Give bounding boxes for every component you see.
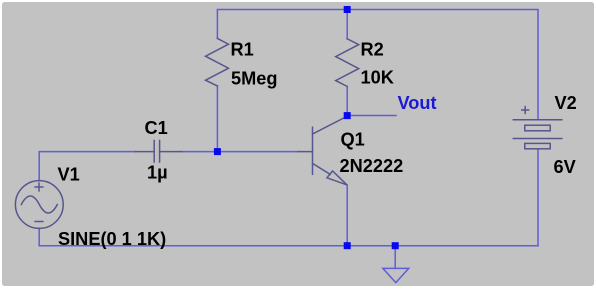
svg-text:V1: V1 [58, 164, 80, 184]
voltage source V1 [15, 181, 63, 229]
wire R2 top lead [346, 10, 348, 39]
ground [383, 246, 409, 283]
svg-text:2N2222: 2N2222 [340, 156, 404, 176]
svg-text:V2: V2 [555, 93, 577, 113]
svg-text:R2: R2 [361, 40, 384, 60]
node junction ground/bottom rail [392, 242, 399, 249]
battery V2 [513, 107, 562, 149]
transistor Q1 [298, 116, 347, 185]
wire C1 right pin to base [182, 151, 298, 153]
wire emitter to bottom rail [346, 185, 348, 246]
svg-text:Q1: Q1 [341, 130, 365, 150]
wire Vout stub [347, 115, 396, 117]
capacitor C1 [135, 141, 182, 163]
wire R2 bottom to collector node [346, 86, 348, 115]
svg-text:R1: R1 [231, 40, 254, 60]
wire V2 bottom lead [537, 149, 539, 246]
node junction C1/R1/base [214, 148, 221, 155]
svg-text:C1: C1 [145, 118, 168, 138]
wire V1 top to C1 left pin [39, 152, 135, 181]
wire bottom rail [39, 245, 538, 247]
node junction collector/R2/Vout [344, 112, 351, 119]
wire R1 bottom to node A [216, 86, 218, 152]
node junction emitter/bottom rail [344, 242, 351, 249]
svg-text:1µ: 1µ [147, 163, 168, 183]
node junction top rail/R2 [344, 6, 351, 13]
resistor R1 [206, 38, 229, 86]
svg-text:5Meg: 5Meg [231, 69, 278, 89]
svg-text:6V: 6V [554, 157, 576, 177]
wire V1 bottom lead [38, 228, 40, 245]
wire top rail [217, 10, 538, 120]
svg-text:SINE(0 1 1K): SINE(0 1 1K) [58, 229, 166, 249]
resistor R2 [336, 39, 359, 87]
svg-text:10K: 10K [361, 67, 394, 87]
svg-text:Vout: Vout [398, 93, 437, 113]
